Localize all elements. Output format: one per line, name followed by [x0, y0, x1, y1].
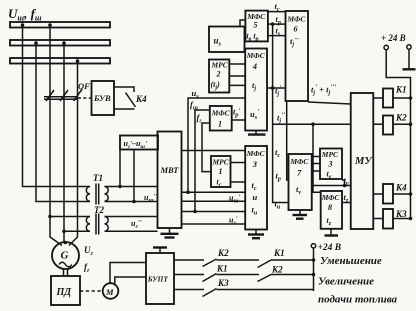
svg-text:tр: tр	[276, 171, 281, 183]
block ПД (prime mover / diesel)	[51, 276, 80, 305]
wire tj': МФС4 to МФС6	[267, 86, 286, 90]
svg-text:К1: К1	[395, 85, 407, 95]
svg-text:К3: К3	[217, 278, 229, 288]
relay К4	[373, 184, 412, 204]
svg-text:(tj): (tj)	[211, 80, 221, 91]
svg-text:us: us	[214, 36, 222, 48]
svg-text:4: 4	[252, 61, 257, 71]
block МРС1	[211, 156, 231, 189]
ground below МФС3	[248, 230, 264, 239]
terminal +24В left	[384, 45, 388, 49]
wire fш: МФС1 input down to bus line	[193, 110, 210, 213]
svg-text:2: 2	[216, 70, 221, 79]
bus bar 3	[10, 58, 110, 64]
svg-text:8: 8	[328, 203, 332, 212]
bus bar 2	[10, 40, 110, 46]
svg-text:МРС: МРС	[212, 158, 230, 167]
terminal +24В right	[407, 45, 411, 49]
wire: T2 secondary top to МВТ	[105, 216, 158, 218]
transformer T2 (generator voltage transformer)	[86, 214, 108, 235]
svg-text:u: u	[253, 192, 258, 202]
wire: МФС7 to МРС3 stub 1	[312, 156, 320, 158]
wire: +24В supply rail to relays	[386, 50, 410, 219]
relay К2	[373, 116, 412, 135]
wire: branch down to МФС8 input	[313, 124, 321, 192]
svg-text:fг: fг	[197, 113, 203, 125]
svg-text:QF: QF	[78, 81, 90, 91]
svg-text:МФС: МФС	[211, 109, 231, 118]
wire: difference block tap to T1 secondary top	[118, 150, 122, 189]
svg-text:tz: tz	[327, 216, 332, 227]
wire: vertical from МФС6 bottom down to МФС7	[287, 101, 289, 180]
svg-text:tс: tс	[252, 180, 257, 192]
svg-text:К2: К2	[217, 248, 229, 258]
block МРС3	[320, 149, 342, 181]
svg-text:Т1: Т1	[93, 173, 103, 183]
svg-text:us': us'	[250, 108, 259, 121]
block МФС7	[289, 154, 312, 210]
wire: МВТ output to МФС3 second	[182, 200, 246, 202]
wire: М to БУПТ upper	[110, 263, 146, 284]
wire: dashed link ПД to servomotor М	[80, 290, 103, 292]
svg-text:К1: К1	[216, 264, 228, 274]
svg-text:МРС: МРС	[211, 61, 229, 70]
svg-text:БУПТ: БУПТ	[147, 275, 169, 284]
wire: МВТ output uш' to МФС3	[182, 191, 246, 193]
wire: T1 secondary top to МВТ	[105, 186, 158, 188]
svg-text:К1: К1	[273, 248, 285, 258]
contact К4 at БУВ	[114, 87, 136, 109]
wire: МВТ output uг' to МФС3	[182, 223, 246, 225]
wire us: МФС4 left down to uш' line	[186, 98, 245, 194]
wire fг: МФС1 input down to МРС1 input	[202, 123, 211, 172]
block МУ (amplifier unit)	[351, 93, 374, 229]
svg-text:МФС: МФС	[321, 193, 341, 202]
transformer T1 (voltage transformer)	[86, 184, 108, 205]
block МФС6	[286, 11, 309, 101]
wire: difference block tap to T1 secondary bottom	[132, 150, 136, 204]
svg-text:3: 3	[328, 160, 333, 169]
generator G	[52, 242, 79, 269]
terminal +24В bottom	[311, 243, 341, 253]
wire tс: МФС5 to МФС6	[268, 11, 286, 13]
block МФС3	[245, 146, 267, 230]
block МФС8	[321, 191, 342, 229]
wire tz: МФС8 to МУ	[342, 202, 351, 204]
wire: МРС1 to МФС3 stub 1	[231, 162, 246, 164]
svg-text:tj: tj	[252, 80, 256, 92]
wire tj'+tj''': МФС6 to МУ	[308, 102, 351, 104]
svg-text:uг'–uш': uг'–uш'	[124, 139, 147, 150]
wire: us block to МФС5	[240, 20, 245, 27]
svg-text:6: 6	[294, 25, 298, 34]
svg-text:МФС: МФС	[290, 157, 310, 166]
svg-text:tv: tv	[296, 184, 301, 196]
wire: МВТ output to МФС3 third	[182, 211, 246, 213]
svg-text:tj''': tj'''	[290, 36, 299, 48]
svg-text:G: G	[61, 250, 69, 262]
svg-text:подачи топлива: подачи топлива	[318, 294, 398, 306]
svg-text:7: 7	[297, 168, 302, 178]
wire: T2 secondary bottom to МВТ	[105, 230, 158, 232]
wire: МРС2 to МФС4 stub 2	[229, 75, 245, 77]
svg-text:tj': tj'	[275, 85, 281, 98]
block БУПТ (fuel supply control unit)	[146, 253, 174, 304]
wire: phase C from bus3 through QF to generator	[69, 59, 79, 245]
wire: tap from bus1 to T1 primary top	[21, 23, 88, 186]
wire tр: МФС5 to МФС6	[268, 22, 286, 26]
terminal bar below right +24В terminal	[403, 49, 416, 69]
ground below МВТ	[161, 228, 179, 238]
svg-text:tj'': tj''	[277, 112, 285, 125]
wire: МРС2 to МФС4 stub 1	[229, 63, 245, 65]
wire: МРС2 to МФС4 stub 3	[229, 84, 245, 86]
wire: МФС7 to МРС3 stub 3	[312, 170, 320, 172]
ground below МФС4	[248, 131, 266, 135]
svg-text:tр': tр'	[233, 107, 240, 119]
ground below МФС7	[293, 210, 308, 219]
relay К3	[373, 209, 412, 229]
block МФС4	[245, 49, 267, 131]
wire: vertical tр/tu channel from МФС5 down to МФС7	[273, 24, 289, 202]
block БУВ (breaker control unit)	[92, 81, 115, 115]
svg-text:Уменьшение: Уменьшение	[320, 255, 382, 267]
wire: tap phase B to T2 primary bottom	[62, 230, 90, 234]
wire: dashed link QF to БУВ	[78, 97, 91, 99]
svg-text:Увеличение: Увеличение	[318, 276, 374, 288]
wire: phase A from bus1 through QF to generator	[48, 23, 62, 245]
svg-text:fш: fш	[190, 100, 198, 112]
svg-text:Uш, fш: Uш, fш	[8, 6, 42, 23]
wire: М to БУПТ lower	[115, 277, 146, 286]
svg-text:+24 В: +24 В	[318, 243, 342, 253]
block МФС5	[245, 11, 268, 43]
svg-text:tj' + tj''': tj' + tj'''	[311, 84, 336, 97]
svg-text:М: М	[105, 287, 114, 297]
svg-text:Uг: Uг	[84, 245, 94, 257]
svg-text:1: 1	[219, 167, 223, 176]
svg-text:uш'': uш''	[144, 193, 157, 204]
svg-text:МРС: МРС	[321, 150, 339, 159]
svg-text:К2: К2	[395, 113, 407, 123]
wire: tap from bus2 to T1 primary bottom	[34, 41, 88, 201]
wire ts: МФС5 to МФС6	[268, 35, 286, 37]
terminal bar above БУПТ	[153, 248, 167, 254]
block МРС2	[209, 60, 229, 93]
wire: +24В bottom rail	[313, 248, 315, 291]
wire: МФС1 output tр' to МФС4	[232, 119, 246, 121]
svg-text:5: 5	[253, 21, 257, 30]
relay К1	[373, 89, 412, 108]
svg-text:МФС: МФС	[246, 149, 266, 158]
svg-text:ПД: ПД	[56, 287, 73, 298]
svg-text:МФС: МФС	[287, 15, 307, 24]
wire: МВТ output 1 to МФС3	[182, 150, 246, 152]
wire: МФС7 to МРС3 stub 2	[312, 163, 320, 165]
node: generator star point junction	[64, 241, 68, 245]
block МВТ (measuring-computing block)	[158, 132, 182, 229]
svg-text:tu: tu	[252, 205, 258, 217]
svg-text:3: 3	[252, 159, 258, 169]
svg-text:К4: К4	[135, 94, 147, 104]
block uг'-uш' (voltage difference)	[120, 136, 158, 151]
label Uш fш (bus voltage/frequency)	[8, 6, 42, 23]
svg-text:tu: tu	[275, 199, 281, 211]
bus bar 1	[10, 22, 110, 28]
shaft generator to prime mover	[64, 269, 68, 276]
svg-text:БУВ: БУВ	[93, 93, 111, 103]
contact row A: БУПТ to +24В rail via К2 and К1	[174, 258, 315, 267]
circuit breaker QF (three pole slashes and tie bar)	[44, 90, 82, 101]
svg-text:К4: К4	[395, 183, 407, 193]
block us setpoint	[209, 27, 245, 53]
wire: phase B from bus2 through QF to generator	[62, 41, 66, 242]
svg-text:1: 1	[218, 120, 222, 129]
svg-text:tс: tс	[275, 147, 280, 159]
svg-text:uг': uг'	[229, 216, 238, 227]
svg-text:uг'': uг''	[131, 219, 142, 230]
block МФС1	[210, 106, 232, 131]
wire tv: МФС7 to МУ	[312, 180, 351, 187]
svg-text:МВТ: МВТ	[160, 165, 180, 175]
servomotor М	[103, 283, 119, 299]
svg-text:К3: К3	[395, 209, 407, 219]
wire: МРС1 to МФС3 stub 2	[231, 181, 246, 183]
wire tj'': from channel to МУ	[273, 122, 351, 126]
svg-text:К2: К2	[271, 265, 283, 275]
wire: T1 secondary bottom to МВТ	[105, 201, 158, 203]
svg-text:МУ: МУ	[354, 156, 373, 167]
svg-text:fг: fг	[84, 262, 90, 274]
svg-text:МФС: МФС	[246, 51, 266, 60]
svg-text:+ 24 В: + 24 В	[381, 33, 406, 43]
contact row B: БУПТ to +24В rail via К1 and К2	[174, 273, 315, 282]
contact row C: БУПТ to +24В rail via К3	[174, 289, 314, 297]
ground below МФС8	[325, 229, 339, 236]
svg-text:uш': uш'	[229, 194, 240, 205]
wire: tap phase A to T2 primary top	[48, 215, 90, 219]
